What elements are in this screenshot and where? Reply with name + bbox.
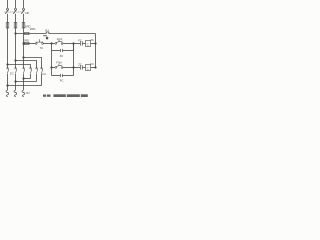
node L2 control tap	[14, 32, 16, 34]
start button FQA (NO)	[52, 64, 74, 68]
wire L1 switch to fuse	[7, 14, 9, 23]
svg-text:ZC: ZC	[60, 54, 64, 58]
svg-text:FC: FC	[42, 72, 46, 76]
node crossover L2	[14, 80, 16, 82]
wire L1 tap to FC pole a	[8, 65, 31, 68]
wire L1 top feed	[7, 0, 9, 8]
node B junction row1	[72, 42, 74, 44]
wire node A down to row2	[51, 51, 53, 68]
switch HK pole 2 terminal	[15, 8, 17, 10]
svg-text:FC: FC	[60, 78, 64, 82]
svg-text:FC: FC	[90, 62, 94, 66]
wire L2 tap to FC pole b	[16, 61, 37, 68]
switch HK pole 3 terminal	[23, 8, 25, 10]
node L1 branch tap	[6, 63, 8, 65]
thermal relay RJ NC contact	[46, 32, 96, 34]
wire node B down to row2	[73, 44, 75, 68]
svg-text:ZC: ZC	[78, 62, 82, 66]
svg-text:HK: HK	[25, 11, 29, 15]
svg-text:RJ: RJ	[45, 28, 49, 32]
svg-text:TA: TA	[40, 46, 44, 50]
switch HK pole 3 blade	[21, 10, 24, 14]
heater RJ element 3	[22, 90, 25, 97]
wire L2 to heater	[15, 82, 17, 91]
crossover wire FC pole b to L2	[16, 81, 37, 83]
contactor FC main contact c	[41, 68, 43, 86]
switch HK linkage (dashed)	[4, 11, 24, 13]
heater RJ element 2	[14, 90, 17, 97]
contactor ZC main contact 3	[23, 68, 25, 79]
interlock contact ZC row2	[74, 65, 86, 69]
wire right rail	[95, 34, 97, 68]
fuse 2RD upper	[25, 32, 29, 34]
svg-text:2RD: 2RD	[23, 38, 29, 42]
node rail row2	[94, 66, 96, 68]
svg-text:1QA: 1QA	[57, 37, 63, 41]
wire L3 top feed	[23, 0, 25, 8]
hold contact FC loop row2	[52, 68, 74, 78]
svg-text:2RD: 2RD	[30, 27, 36, 31]
wire L1 fuse down to ZC contact	[7, 28, 9, 68]
node A2 junction	[50, 66, 52, 68]
node crossover L3	[22, 77, 24, 79]
node number mark	[43, 34, 47, 37]
wire L3 switch to fuse	[23, 14, 25, 23]
switch HK pole 1 blade	[5, 10, 8, 14]
interlock contact FC row1	[74, 41, 86, 45]
contactor FC main contact b	[36, 68, 38, 82]
node L3 branch tap	[22, 56, 24, 58]
contactor ZC main contact 2	[15, 68, 17, 82]
wire L3 to heater	[23, 79, 25, 91]
wire control lower y43.5	[24, 43, 36, 45]
svg-text:C: C	[87, 42, 90, 46]
node A junction	[50, 42, 52, 44]
hold contact ZC loop row1	[52, 44, 74, 53]
svg-text:RJ: RJ	[26, 91, 30, 95]
heater RJ element 1	[6, 90, 9, 97]
contactor FC main contact a	[30, 68, 32, 79]
svg-text:C: C	[87, 66, 90, 70]
svg-text:FC: FC	[78, 38, 82, 42]
fuse 1RD pole 2	[14, 23, 17, 29]
fuse 1RD pole 3	[22, 23, 25, 29]
node rail row1	[94, 42, 96, 44]
switch HK pole 2 blade	[13, 10, 16, 14]
crossover wire FC pole c to L1	[8, 85, 42, 87]
wire control upper y33.5	[16, 33, 47, 35]
wire L3 fuse down to ZC contact	[23, 28, 25, 68]
caption text block	[53, 94, 65, 97]
start button 1QA (NO)	[52, 40, 74, 44]
svg-text:ZC: ZC	[90, 38, 94, 42]
caption figure number	[43, 94, 88, 97]
fuse 1RD pole 1	[6, 23, 9, 29]
node L3 control tap	[22, 42, 24, 44]
stop button TA (NC)	[35, 39, 51, 44]
coil FC row2	[86, 65, 91, 71]
fuse 2RD lower	[25, 42, 29, 44]
svg-text:FQA: FQA	[56, 61, 62, 65]
wire L2 fuse down to ZC contact	[15, 28, 17, 68]
node B2 junction	[72, 66, 74, 68]
wire L2 switch to fuse	[15, 14, 17, 23]
svg-text:ZC: ZC	[10, 72, 14, 76]
contactor ZC main contact 1	[7, 68, 9, 86]
coil ZC row1	[86, 41, 91, 47]
wire L3 tap to FC pole c	[24, 58, 42, 68]
switch HK pole 1 terminal	[7, 8, 9, 10]
wire L1 to heater	[7, 86, 9, 91]
node L2 branch tap	[14, 59, 16, 61]
crossover wire FC pole a to L3	[24, 78, 31, 80]
wire L2 top feed	[15, 0, 17, 8]
node crossover L1	[6, 84, 8, 86]
